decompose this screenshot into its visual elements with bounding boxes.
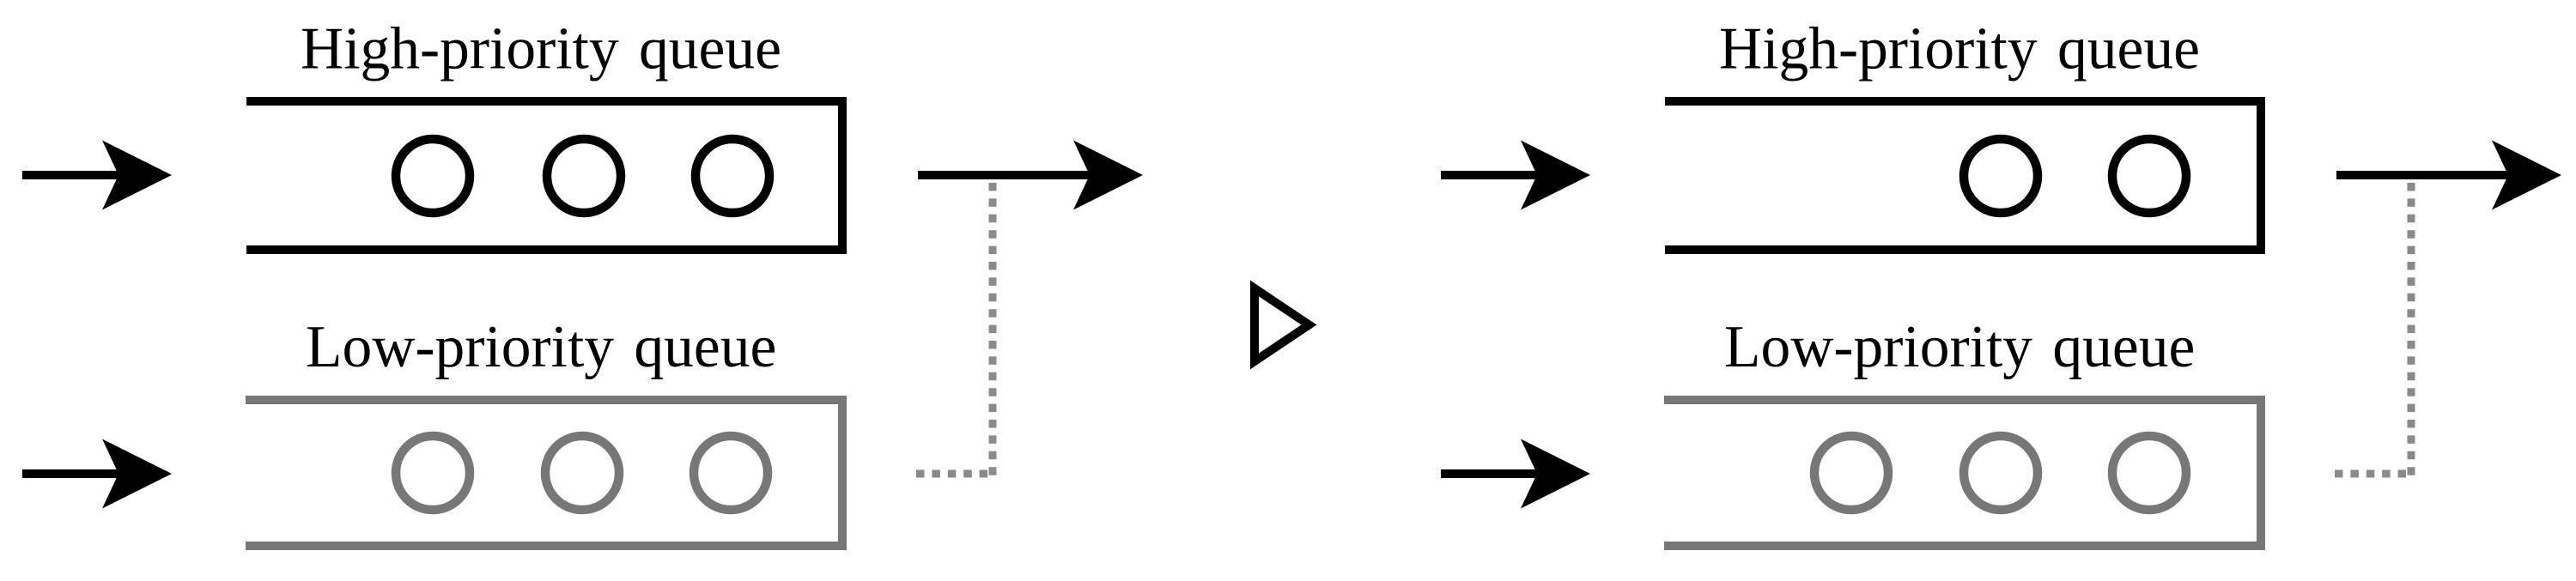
customer circle 3 in left high-priority queue xyxy=(696,139,769,213)
svg-text:Low-priority queue: Low-priority queue xyxy=(1724,314,2195,380)
wire: arrival arrow shaft into left low-priority queue xyxy=(22,469,122,478)
customer circle 2 in right low-priority queue xyxy=(1964,436,2038,510)
queue box: right low-priority queue (open left side, gray) xyxy=(1664,400,2261,546)
wire: arrival arrow shaft into left high-priority queue xyxy=(22,171,122,179)
dashed link vertical: right figure low-queue to server xyxy=(2408,183,2415,481)
queue box: right high-priority queue (open left side) xyxy=(1665,101,2261,250)
arrowhead: departure arrow of right figure xyxy=(2492,141,2561,210)
customer circle 1 in left high-priority queue xyxy=(396,139,470,213)
dashed link horizontal: left figure low-queue to server xyxy=(916,470,987,478)
arrowhead: arrival arrow into left low-priority queue xyxy=(102,439,172,509)
customer circle 2 in left high-priority queue xyxy=(547,139,621,213)
customer circle 3 in right low-priority queue xyxy=(2112,436,2186,510)
wire: departure arrow shaft from left figure xyxy=(918,171,1092,179)
queue box: left low-priority queue (open left side, gray) xyxy=(246,400,842,546)
arrowhead: arrival arrow into left high-priority queue xyxy=(102,141,172,210)
arrowhead: arrival arrow into right low-priority queue xyxy=(1521,439,1590,509)
svg-text:High-priority queue: High-priority queue xyxy=(1719,16,2200,82)
wire: departure arrow shaft from right figure xyxy=(2336,171,2511,179)
customer circle 1 in left low-priority queue xyxy=(396,436,470,510)
arrowhead: arrival arrow into right high-priority queue xyxy=(1521,141,1590,210)
arrowhead: departure arrow of left figure xyxy=(1073,141,1143,210)
transition triangle (state change marker) xyxy=(1255,288,1309,361)
customer circle 3 in left low-priority queue xyxy=(694,436,768,510)
customer circle 2 in right high-priority queue xyxy=(2112,139,2186,213)
customer circle 1 in right high-priority queue xyxy=(1964,139,2038,213)
dashed link vertical: left figure low-queue to server xyxy=(989,183,997,481)
customer circle 1 in right low-priority queue xyxy=(1814,436,1888,510)
customer circle 2 in left low-priority queue xyxy=(545,436,619,510)
wire: arrival arrow shaft into right high-priority queue xyxy=(1441,171,1540,179)
dashed link horizontal: right figure low-queue to server xyxy=(2335,470,2406,478)
queue box: left high-priority queue (open left side) xyxy=(246,101,842,250)
svg-text:High-priority queue: High-priority queue xyxy=(301,16,781,82)
svg-text:Low-priority queue: Low-priority queue xyxy=(306,314,776,380)
wire: arrival arrow shaft into right low-priority queue xyxy=(1441,469,1540,478)
